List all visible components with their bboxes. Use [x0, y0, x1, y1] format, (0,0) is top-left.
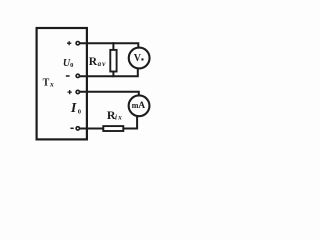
svg-text:x: x	[117, 114, 122, 122]
svg-text:i: i	[115, 114, 117, 122]
svg-text:V: V	[134, 53, 142, 64]
svg-text:a: a	[98, 60, 102, 68]
svg-text:I: I	[70, 101, 77, 116]
svg-text:x: x	[49, 79, 54, 88]
svg-text:T: T	[43, 78, 50, 89]
svg-text:R: R	[89, 56, 98, 68]
svg-text:A: A	[138, 101, 145, 111]
svg-text:0: 0	[78, 109, 81, 116]
svg-text:0: 0	[70, 62, 73, 69]
